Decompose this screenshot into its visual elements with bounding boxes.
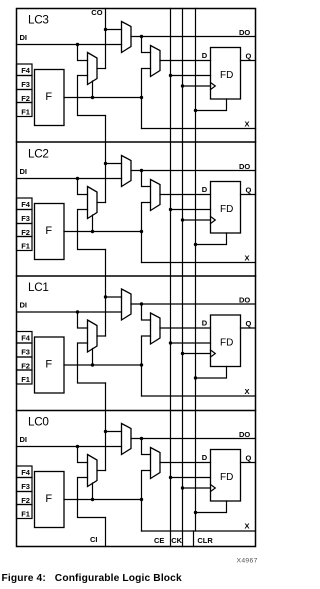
- CK vertical bus line: [182, 9, 184, 547]
- LC3 wire DO tap to D mux upper input: [142, 37, 151, 53]
- LC2 function generator (LUT) F: [35, 204, 65, 260]
- LC1 input pin box F2: [17, 357, 33, 370]
- LC0 wire F output up to D mux lower input and down to X: [142, 471, 151, 532]
- LC1 X output wire: [142, 395, 256, 397]
- LC3 input pin box F2: [17, 90, 33, 103]
- svg-text:FD: FD: [220, 472, 233, 483]
- label row cell divider left of CLR: [193, 531, 195, 547]
- LC0 wire carry-in to carry mux lower input: [78, 478, 106, 518]
- LC0 wire CLR bus to FD bottom: [196, 501, 227, 513]
- LC3 junction CK bus tap: [181, 84, 184, 87]
- LC1 wire F output up to D mux lower input and down to X: [142, 336, 151, 396]
- divider line between LC3 and LC2: [17, 141, 256, 143]
- LC1 DI input wire: [17, 311, 122, 313]
- LC0 X output wire: [142, 530, 256, 532]
- svg-text:LC1: LC1: [28, 281, 49, 294]
- LC3 DO output wire: [131, 36, 256, 38]
- LC1 input pin box F1: [17, 370, 33, 384]
- LC3 junction CE bus tap: [169, 74, 172, 77]
- LC0 junction DO wire to D mux: [140, 437, 143, 440]
- svg-text:DO: DO: [239, 430, 250, 439]
- LC2 X output wire: [142, 262, 256, 264]
- LC3 wire DI tap down to carry mux upper input: [78, 45, 88, 61]
- LC2 wire D mux output to FD D input: [160, 194, 211, 196]
- svg-text:F4: F4: [21, 66, 31, 75]
- svg-text:CO: CO: [91, 8, 102, 17]
- LC0 DO output wire: [131, 438, 256, 440]
- LC0 input pin box F4: [17, 466, 33, 478]
- svg-text:D: D: [202, 319, 208, 328]
- LC3 flip-flop FD: [211, 48, 241, 100]
- svg-text:X: X: [245, 253, 250, 262]
- LC1 carry chain vertical wire to CO above: [105, 250, 107, 337]
- LC1 wire CE bus to FD: [171, 342, 211, 344]
- svg-text:DI: DI: [20, 301, 28, 310]
- LC1 wire F output: [64, 364, 142, 366]
- svg-text:F4: F4: [21, 200, 31, 209]
- LC2 junction F output to carry mux select: [91, 230, 94, 233]
- LC2 junction CK bus tap: [181, 218, 184, 221]
- LC2 junction carry chain to DO mux: [104, 162, 107, 165]
- LC1 input pin box F3: [17, 343, 33, 357]
- svg-text:DI: DI: [20, 435, 28, 444]
- svg-text:F1: F1: [21, 509, 30, 518]
- LC1 function generator (LUT) F: [35, 337, 65, 393]
- LC1 D mux (DO/F select): [151, 313, 161, 344]
- svg-text:F2: F2: [21, 361, 30, 370]
- svg-text:DO: DO: [239, 162, 250, 171]
- svg-text:FD: FD: [220, 204, 233, 215]
- LC1 junction CK bus tap: [181, 352, 184, 355]
- LC0 input pin box F3: [17, 478, 33, 492]
- svg-text:D: D: [202, 185, 208, 194]
- svg-text:F3: F3: [21, 214, 30, 223]
- svg-text:F: F: [45, 358, 52, 370]
- svg-text:F1: F1: [21, 107, 30, 116]
- svg-text:F: F: [45, 225, 52, 237]
- divider line between LC1 and LC0: [17, 410, 256, 412]
- LC0 wire carry mux output: [97, 470, 106, 472]
- LC0 junction F output to carry mux select: [91, 498, 94, 501]
- LC1 wire CK bus to FD clock: [183, 353, 211, 355]
- svg-text:F2: F2: [21, 496, 30, 505]
- LC0 input pin box F1: [17, 505, 33, 519]
- svg-text:F4: F4: [21, 334, 31, 343]
- svg-text:CLR: CLR: [197, 536, 213, 545]
- svg-text:F: F: [45, 493, 52, 505]
- LC1 DO mux (carry/DI select): [122, 289, 132, 320]
- LC0 D mux (DO/F select): [151, 448, 161, 479]
- LC1 flip-flop FD: [211, 315, 241, 367]
- LC0 wire CK bus to FD clock: [183, 487, 211, 489]
- svg-text:CE: CE: [154, 536, 164, 545]
- LC2 D mux (DO/F select): [151, 180, 161, 211]
- LC2 wire DO tap to D mux upper input: [142, 171, 151, 187]
- svg-text:Q: Q: [246, 52, 252, 61]
- LC3 DI input wire: [17, 44, 122, 46]
- svg-text:LC3: LC3: [28, 13, 49, 26]
- LC3 wire CE bus to FD: [171, 75, 211, 77]
- LC2 wire DI tap down to carry mux upper input: [78, 179, 88, 195]
- LC3 wire carry mux output: [97, 68, 106, 70]
- LC0 junction CK bus tap: [181, 486, 184, 489]
- LC3 junction carry chain to DO mux: [104, 28, 107, 31]
- LC2 input pin box F4: [17, 198, 33, 210]
- svg-text:F3: F3: [21, 482, 30, 491]
- LC2 carry chain vertical wire to CO above: [105, 116, 107, 203]
- LC0 wire D mux output to FD D input: [160, 462, 211, 464]
- LC3 wire carry tap to DO mux upper input: [106, 29, 122, 31]
- LC2 Q output wire: [241, 194, 256, 196]
- LC3 junction CLR bus tap: [194, 109, 197, 112]
- LC1 wire DO tap to D mux upper input: [142, 304, 151, 320]
- svg-text:X: X: [245, 119, 250, 128]
- LC3 Q output wire: [241, 60, 256, 62]
- LC0 wire DI tap down to carry mux upper input: [78, 447, 88, 463]
- LC3 wire carry mux select: [92, 81, 94, 98]
- LC1 wire CLR bus to FD bottom: [196, 367, 227, 379]
- LC3 FD clock input triangle: [211, 83, 216, 90]
- svg-text:F2: F2: [21, 228, 30, 237]
- LC1 wire DI tap down to carry mux upper input: [78, 312, 88, 328]
- LC2 wire carry mux select: [92, 215, 94, 232]
- LC3 input pin box F4: [17, 64, 33, 76]
- svg-text:F: F: [45, 91, 52, 103]
- LC2 junction on DI wire: [76, 177, 79, 180]
- svg-text:DI: DI: [20, 33, 28, 42]
- LC1 junction F output at D mux feed: [140, 363, 143, 366]
- svg-text:Q: Q: [246, 319, 252, 328]
- LC1 FD clock input triangle: [211, 350, 216, 357]
- LC1 Q output wire: [241, 327, 256, 329]
- svg-text:X: X: [245, 521, 250, 530]
- LC2 FD clock input triangle: [211, 217, 216, 224]
- CLB outer border frame: [17, 9, 256, 547]
- LC1 wire carry mux select: [92, 349, 94, 366]
- LC3 junction DO wire to D mux: [140, 35, 143, 38]
- CI carry input vertical wire from bottom border: [105, 518, 107, 547]
- LC1 input pin box F4: [17, 332, 33, 344]
- LC1 junction on DI wire: [76, 310, 79, 313]
- LC3 junction on DI wire: [76, 43, 79, 46]
- LC0 wire CE bus to FD: [171, 477, 211, 479]
- LC2 wire carry-in to carry mux lower input: [78, 210, 106, 250]
- LC1 junction CE bus tap: [169, 341, 172, 344]
- LC1 junction carry chain to DO mux: [104, 295, 107, 298]
- svg-text:DI: DI: [20, 167, 28, 176]
- LC1 wire carry-in to carry mux lower input: [78, 343, 106, 383]
- LC1 junction CLR bus tap: [194, 376, 197, 379]
- LC1 wire D mux output to FD D input: [160, 327, 211, 329]
- LC1 wire carry mux output: [97, 335, 106, 337]
- LC3 X output wire: [142, 128, 256, 130]
- svg-text:X4967: X4967: [237, 558, 258, 565]
- svg-text:Q: Q: [246, 454, 252, 463]
- LC0 wire carry mux select: [92, 483, 94, 500]
- LC0 junction F output at D mux feed: [140, 498, 143, 501]
- svg-text:DO: DO: [239, 28, 250, 37]
- LC0 DI input wire: [17, 446, 122, 448]
- LC3 input pin box F3: [17, 76, 33, 90]
- LC0 junction CLR bus tap: [194, 511, 197, 514]
- LC3 wire carry-in to carry mux lower input: [78, 76, 106, 116]
- LC0 junction CE bus tap: [169, 476, 172, 479]
- LC2 junction F output at D mux feed: [140, 230, 143, 233]
- LC3 wire D mux output to FD D input: [160, 60, 211, 62]
- LC2 wire CK bus to FD clock: [183, 219, 211, 221]
- LC2 input pin box F1: [17, 237, 33, 251]
- LC0 input pin box F2: [17, 492, 33, 505]
- LC0 junction carry chain to DO mux: [104, 430, 107, 433]
- svg-text:DO: DO: [239, 296, 250, 305]
- LC3 junction F output at D mux feed: [140, 96, 143, 99]
- LC0 wire carry tap to DO mux upper input: [106, 431, 122, 433]
- figure caption: [2, 573, 182, 584]
- LC2 wire F output up to D mux lower input and down to X: [142, 203, 151, 263]
- LC2 input pin box F3: [17, 210, 33, 224]
- svg-text:F3: F3: [21, 348, 30, 357]
- LC0 Q output wire: [241, 462, 256, 464]
- LC0 carry chain vertical wire to CO above: [105, 383, 107, 471]
- LC2 junction DO wire to D mux: [140, 169, 143, 172]
- LC2 carry mux (CI/DI select): [88, 187, 98, 219]
- LC1 junction F output to carry mux select: [91, 363, 94, 366]
- LC3 wire CLR bus to FD bottom: [196, 99, 227, 111]
- LC0 carry mux (CI/DI select): [88, 455, 98, 487]
- LC3 carry mux (CI/DI select): [88, 53, 98, 85]
- LC3 DO mux (carry/DI select): [122, 22, 132, 53]
- LC0 function generator (LUT) F: [35, 472, 65, 528]
- svg-text:CK: CK: [171, 536, 182, 545]
- svg-text:CI: CI: [90, 535, 98, 544]
- LC2 wire carry mux output: [97, 202, 106, 204]
- svg-text:F2: F2: [21, 94, 30, 103]
- LC2 input pin box F2: [17, 224, 33, 237]
- LC3 D mux (DO/F select): [151, 46, 161, 77]
- LC0 wire DO tap to D mux upper input: [142, 439, 151, 455]
- svg-text:F3: F3: [21, 80, 30, 89]
- LC1 carry mux (CI/DI select): [88, 320, 98, 352]
- LC2 flip-flop FD: [211, 182, 241, 234]
- LC2 wire carry tap to DO mux upper input: [106, 163, 122, 165]
- LC0 FD clock input triangle: [211, 485, 216, 492]
- LC3 wire F output up to D mux lower input and down to X: [142, 69, 151, 129]
- LC2 DI input wire: [17, 178, 122, 180]
- LC2 junction CLR bus tap: [194, 243, 197, 246]
- svg-text:FD: FD: [220, 70, 233, 81]
- LC3 input pin box F1: [17, 103, 33, 117]
- LC1 DO output wire: [131, 303, 256, 305]
- LC1 wire carry tap to DO mux upper input: [106, 296, 122, 298]
- LC2 DO output wire: [131, 170, 256, 172]
- svg-text:LC0: LC0: [28, 415, 49, 428]
- LC3 wire CK bus to FD clock: [183, 85, 211, 87]
- LC3 wire F output: [64, 97, 142, 99]
- svg-text:X: X: [245, 387, 250, 396]
- divider line between LC2 and LC1: [17, 275, 256, 277]
- LC1 junction DO wire to D mux: [140, 302, 143, 305]
- LC0 flip-flop FD: [211, 450, 241, 502]
- svg-text:FD: FD: [220, 338, 233, 349]
- svg-text:F1: F1: [21, 241, 30, 250]
- svg-text:D: D: [202, 453, 208, 462]
- LC2 wire CLR bus to FD bottom: [196, 233, 227, 245]
- CLR vertical bus line: [195, 9, 197, 532]
- LC2 DO mux (carry/DI select): [122, 156, 132, 187]
- LC3 carry chain vertical wire to CO above: [105, 9, 107, 69]
- LC0 DO mux (carry/DI select): [122, 424, 132, 455]
- svg-text:D: D: [202, 51, 208, 60]
- LC0 junction on DI wire: [76, 445, 79, 448]
- LC3 function generator (LUT) F: [35, 70, 65, 126]
- LC2 junction CE bus tap: [169, 208, 172, 211]
- svg-text:Q: Q: [246, 186, 252, 195]
- LC2 wire CE bus to FD: [171, 209, 211, 211]
- LC3 junction F output to carry mux select: [91, 96, 94, 99]
- svg-text:F4: F4: [21, 468, 31, 477]
- CE vertical bus line: [170, 9, 172, 547]
- LC0 wire F output: [64, 499, 142, 501]
- LC2 wire F output: [64, 231, 142, 233]
- svg-text:F1: F1: [21, 375, 30, 384]
- svg-text:LC2: LC2: [28, 147, 49, 160]
